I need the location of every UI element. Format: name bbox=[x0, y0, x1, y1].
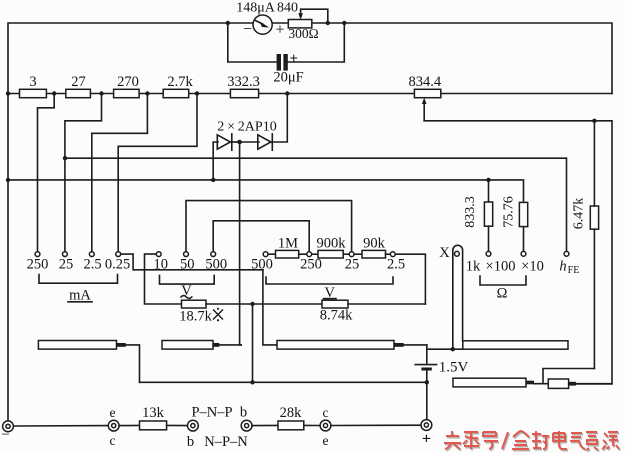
switch bar B1 bbox=[38, 341, 139, 383]
resistor 833.3 vertical bbox=[463, 180, 493, 251]
resistor 6.47k vertical bbox=[572, 121, 599, 369]
switch bar B5 bbox=[548, 379, 612, 388]
svg-text:8.74k: 8.74k bbox=[320, 308, 353, 324]
switch bar B6 bbox=[453, 378, 548, 387]
svg-text:13k: 13k bbox=[142, 405, 165, 421]
contact X bbox=[455, 251, 460, 256]
svg-text:2.5: 2.5 bbox=[387, 257, 405, 273]
svg-text:1M: 1M bbox=[278, 235, 298, 251]
svg-text:b: b bbox=[187, 434, 194, 450]
bracket V ac bbox=[160, 275, 215, 298]
svg-text:c: c bbox=[110, 433, 116, 448]
switch bar B4 bbox=[427, 341, 568, 349]
wire tap 2.5 bbox=[92, 94, 148, 252]
contact x1k bbox=[486, 251, 491, 256]
svg-text:N–P–N: N–P–N bbox=[204, 434, 248, 450]
svg-text:300Ω: 300Ω bbox=[288, 26, 318, 41]
potentiometer wiper on 300ohm bbox=[298, 9, 328, 23]
wire diode right lead up to row bbox=[271, 94, 287, 143]
contact 25 bbox=[59, 252, 74, 273]
contact 250 bbox=[27, 252, 49, 273]
resistor 1M bbox=[268, 235, 298, 258]
node diode junction bbox=[237, 140, 242, 145]
svg-text:900k: 900k bbox=[317, 235, 347, 251]
wire ce to plus bbox=[331, 424, 421, 426]
terminal c/e bbox=[320, 405, 331, 448]
wire 0.25 branch down to bar3 bbox=[263, 270, 277, 345]
svg-text:Ω: Ω bbox=[497, 286, 508, 302]
contact 25 Vdc bbox=[343, 252, 359, 273]
contact 0.25 bbox=[105, 252, 130, 273]
resistor 28k bbox=[252, 405, 320, 430]
contact x10 bbox=[521, 251, 526, 256]
terminal b npn bbox=[241, 420, 252, 431]
wire V500 tap to chain 250 bbox=[213, 221, 309, 252]
resistor 900k bbox=[312, 235, 346, 258]
svg-text:+: + bbox=[275, 22, 284, 39]
contact 500 Vdc bbox=[251, 252, 273, 273]
svg-text:28k: 28k bbox=[280, 405, 303, 421]
svg-text:250: 250 bbox=[300, 257, 322, 273]
svg-text:20μF: 20μF bbox=[273, 70, 303, 86]
bracket mA bbox=[39, 275, 118, 304]
wire diode middle bbox=[237, 141, 259, 143]
node junction on 304 rail bbox=[250, 302, 254, 306]
svg-text:+: + bbox=[290, 51, 298, 67]
resistor 3 bbox=[20, 74, 47, 98]
svg-text:2.5: 2.5 bbox=[83, 257, 101, 273]
wire 0.25 contact lead bbox=[121, 254, 263, 270]
svg-text:P–N–P: P–N–P bbox=[191, 405, 232, 421]
bracket V dc bbox=[266, 277, 393, 301]
resistor 270 bbox=[114, 74, 140, 98]
svg-text:840: 840 bbox=[277, 0, 298, 15]
svg-text:0.25: 0.25 bbox=[105, 257, 130, 273]
resistor 300ohm bbox=[288, 20, 318, 42]
svg-text:50: 50 bbox=[180, 257, 195, 273]
svg-text:3: 3 bbox=[29, 74, 36, 90]
node junction hfe rail on 25 tap bbox=[63, 156, 67, 160]
svg-text:148μA: 148μA bbox=[236, 0, 276, 15]
wire resistor row bbox=[8, 93, 612, 95]
resistor 332.3 bbox=[227, 74, 260, 98]
svg-text:2 × 2AP10: 2 × 2AP10 bbox=[217, 120, 276, 135]
node junction 6.47k top bbox=[592, 119, 596, 123]
node wiper return junction bbox=[326, 21, 330, 25]
wire minus to ec bbox=[13, 425, 108, 427]
node junction on y382 rail bbox=[250, 380, 254, 384]
svg-text:−: − bbox=[243, 21, 252, 38]
svg-text:500: 500 bbox=[251, 257, 273, 273]
svg-text:18.7k: 18.7k bbox=[179, 309, 212, 325]
node meter loop right bbox=[342, 21, 346, 25]
svg-text:h: h bbox=[559, 259, 566, 275]
contact 500 Vac bbox=[205, 252, 227, 273]
resistor 2.7k bbox=[163, 74, 193, 98]
svg-text:25: 25 bbox=[59, 257, 74, 273]
capacitor C 20uF polarized bbox=[273, 51, 303, 86]
wire 18.7k to 8.74k rail bbox=[206, 303, 322, 305]
node row junction 2.7k-332.3 bbox=[195, 91, 199, 95]
wire tap 25 bbox=[65, 94, 102, 252]
diode D1 bbox=[217, 134, 237, 150]
terminal e/c bbox=[108, 405, 119, 448]
svg-text:2.7k: 2.7k bbox=[167, 74, 193, 90]
svg-text:b: b bbox=[240, 405, 247, 421]
probe slot X bbox=[439, 245, 462, 349]
wire V50 tap to chain 25 bbox=[186, 201, 352, 252]
node junction left edge row bbox=[6, 91, 10, 95]
node row junction 3-27 bbox=[52, 91, 56, 95]
svg-text:−: − bbox=[1, 427, 9, 443]
contact 250 Vdc bbox=[299, 252, 322, 273]
svg-text:e: e bbox=[323, 433, 329, 448]
battery 1.5V bbox=[415, 345, 468, 420]
node battery to long rail bbox=[425, 380, 429, 384]
wire 6.47k bottom jog bbox=[543, 369, 594, 384]
wire tap 250 bbox=[38, 94, 55, 252]
wire ohm rail y180 bbox=[8, 180, 524, 203]
node row junction 270-2.7k bbox=[145, 91, 149, 95]
svg-text:25: 25 bbox=[345, 257, 360, 273]
svg-text:250: 250 bbox=[27, 257, 49, 273]
node junction 833.3 top bbox=[486, 178, 490, 182]
node row junction diode branch bbox=[285, 91, 289, 95]
svg-text:1.5V: 1.5V bbox=[439, 359, 469, 375]
svg-text:6.47k: 6.47k bbox=[572, 198, 587, 230]
resistor 13k bbox=[119, 405, 187, 430]
svg-text:×10: ×10 bbox=[521, 259, 544, 275]
wire 2.5Vdc lead to 8.74k rail bbox=[396, 254, 426, 304]
svg-text:e: e bbox=[110, 405, 116, 420]
wire 8.74k junction drop bbox=[252, 304, 254, 382]
svg-text:X: X bbox=[439, 245, 450, 261]
switch bar B3 bbox=[277, 341, 427, 350]
svg-text:FE: FE bbox=[568, 265, 580, 276]
node row junction 27-270 bbox=[99, 91, 103, 95]
node meter loop left bbox=[226, 21, 230, 25]
bracket ohm bbox=[480, 276, 526, 302]
wire 10 contact lead to 18.7k bbox=[145, 254, 182, 304]
resistor 75.76 vertical bbox=[502, 196, 528, 251]
svg-text:332.3: 332.3 bbox=[227, 74, 260, 90]
terminal plus bbox=[421, 420, 432, 448]
svg-text:1k: 1k bbox=[466, 259, 481, 275]
svg-text:10: 10 bbox=[153, 257, 168, 273]
wire diode left lead bbox=[213, 142, 218, 180]
contact 2.5 Vdc bbox=[386, 252, 406, 273]
terminal b pnp bbox=[188, 420, 199, 431]
contact hfe bbox=[559, 251, 579, 276]
wire diode junction drop bbox=[240, 142, 242, 345]
wire long rail y382 bbox=[140, 381, 427, 383]
switch bar B2 bbox=[162, 341, 241, 350]
wire right edge lower bbox=[424, 121, 612, 384]
node junction left edge y180 bbox=[6, 178, 10, 182]
svg-text:75.76: 75.76 bbox=[502, 196, 517, 228]
resistor 90k bbox=[354, 235, 385, 258]
contact 50 bbox=[180, 252, 195, 273]
node junction diode drop on ohm rail bbox=[211, 178, 215, 182]
svg-text:270: 270 bbox=[117, 74, 139, 90]
resistor 8.74k bbox=[320, 300, 426, 324]
resistor 18.7k bbox=[179, 300, 212, 325]
svg-text:27: 27 bbox=[71, 74, 86, 90]
resistor 834.4 potentiometer bbox=[408, 74, 441, 98]
svg-text:×100: ×100 bbox=[486, 259, 516, 275]
diode D2 bbox=[258, 134, 273, 150]
svg-text:833.3: 833.3 bbox=[463, 196, 478, 228]
svg-text:+: + bbox=[422, 431, 431, 448]
contact 2.5 bbox=[83, 252, 101, 273]
wire tap 0.25 bbox=[118, 94, 197, 252]
node slot left on wire bbox=[451, 347, 455, 351]
svg-text:834.4: 834.4 bbox=[408, 74, 441, 90]
galvanometer M 148uA bbox=[236, 0, 298, 38]
svg-text:500: 500 bbox=[205, 257, 227, 273]
wire capacitor loop bbox=[228, 23, 344, 62]
contact 10 bbox=[153, 252, 168, 273]
wire hfe long rail bbox=[65, 158, 567, 251]
terminal minus bbox=[1, 421, 13, 443]
svg-text:c: c bbox=[323, 405, 329, 420]
svg-text:90k: 90k bbox=[363, 235, 386, 251]
reference mark after 18.7k bbox=[213, 308, 223, 322]
resistor 27 bbox=[66, 74, 91, 98]
watermark red toutiao bbox=[445, 432, 620, 451]
wiper arrow on 834.4 bbox=[422, 98, 427, 121]
